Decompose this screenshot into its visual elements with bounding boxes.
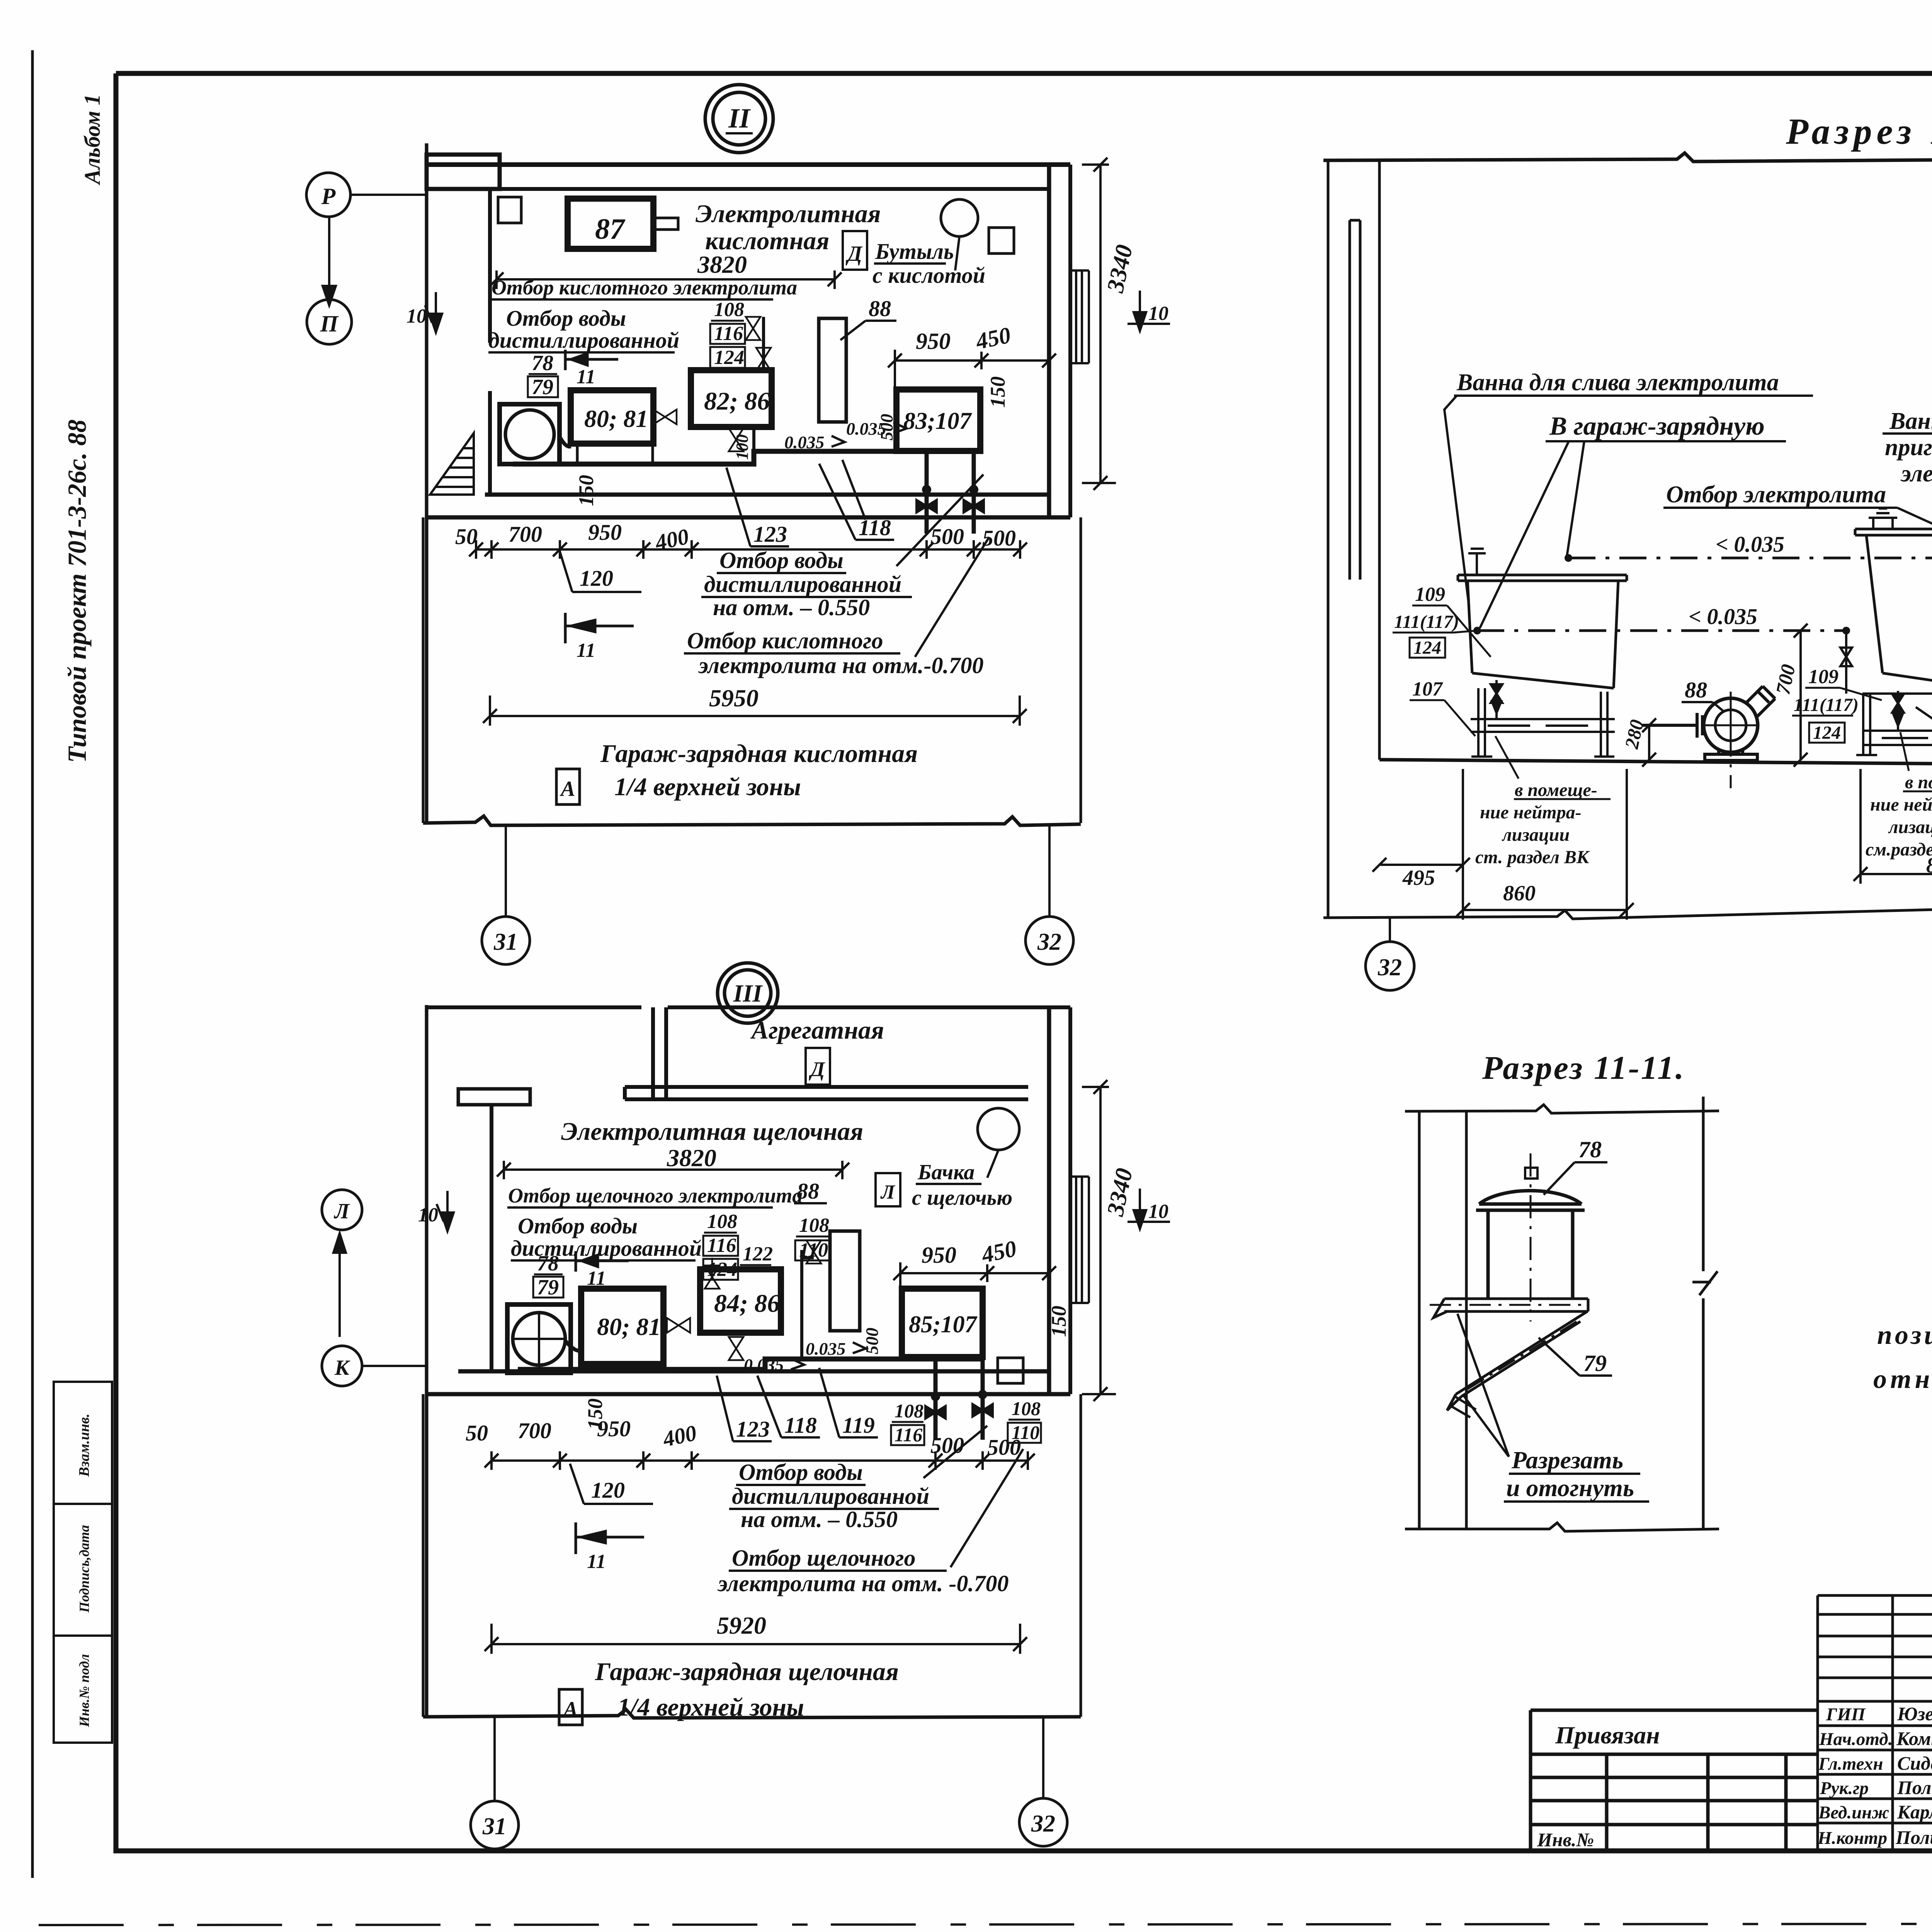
arrow P to Pi <box>323 217 336 305</box>
pot centerline <box>1530 1153 1532 1321</box>
dim 3340 line B <box>1082 1080 1116 1401</box>
svg-text:Полищук: Полищук <box>1895 1827 1932 1848</box>
pump nozzle <box>1745 686 1775 716</box>
flag D agregatnaya <box>806 1048 830 1085</box>
svg-text:124: 124 <box>1413 638 1441 658</box>
svg-text:Сиденко: Сиденко <box>1897 1752 1932 1774</box>
svg-text:124: 124 <box>1813 723 1841 743</box>
lower dim ticks B <box>485 1454 1035 1468</box>
top wall inner face <box>500 187 1049 191</box>
svg-text:5920: 5920 <box>717 1612 766 1639</box>
section mark 11 lower <box>565 613 634 643</box>
svg-text:11: 11 <box>577 639 595 662</box>
pipe dashline lower <box>1477 629 1846 632</box>
dim 3340 line <box>1082 158 1116 490</box>
svg-text:116: 116 <box>707 1235 736 1257</box>
svg-text:31: 31 <box>482 1813 507 1840</box>
svg-text:122: 122 <box>743 1243 773 1265</box>
neutralization block middle <box>1866 772 1932 878</box>
dim 5950 line <box>483 696 1027 726</box>
svg-text:в помеще-: в помеще- <box>1905 772 1932 793</box>
dim line 860 left <box>1456 769 1634 920</box>
svg-text:111(117): 111(117) <box>1794 695 1859 715</box>
valve drop left B <box>925 1393 946 1418</box>
svg-text:относятся к кислотной электрол: относятся к кислотной электролитной. <box>1873 1364 1932 1394</box>
svg-text:ние нейтра-: ние нейтра- <box>1870 794 1932 815</box>
lower dim ticks <box>469 543 1027 556</box>
svg-text:11: 11 <box>587 1551 606 1573</box>
pipe riser at 82 86 <box>754 317 764 451</box>
svg-text:108: 108 <box>707 1211 737 1233</box>
svg-text:Агрегатная: Агрегатная <box>750 1016 884 1044</box>
svg-text:950: 950 <box>588 520 622 545</box>
svg-text:118: 118 <box>784 1413 817 1438</box>
svg-text:32: 32 <box>1037 929 1061 955</box>
section left wall <box>1328 159 1379 917</box>
leader shchelochnogo B <box>951 1449 1023 1567</box>
svg-text:Подпись,дата: Подпись,дата <box>77 1525 92 1613</box>
svg-text:ст. раздел ВК: ст. раздел ВК <box>1475 847 1590 867</box>
svg-text:позиции, заключенные в скобки,: позиции, заключенные в скобки, <box>1877 1320 1932 1350</box>
right wall window strip B <box>1070 1177 1089 1303</box>
svg-text:0.035: 0.035 <box>806 1339 846 1359</box>
box 82 86 <box>691 370 772 427</box>
svg-text:Нач.отд.: Нач.отд. <box>1819 1729 1893 1749</box>
svg-text:Бутыль: Бутыль <box>875 239 954 264</box>
svg-text:11: 11 <box>577 366 595 388</box>
wall between agregatnaya and room <box>625 1087 1028 1099</box>
svg-text:79: 79 <box>1583 1350 1607 1376</box>
svg-text:78: 78 <box>537 1252 559 1276</box>
svg-text:Компанеец: Компанеец <box>1896 1728 1932 1749</box>
svg-text:109: 109 <box>1415 583 1445 605</box>
dim 3820 line B <box>497 1161 849 1179</box>
svg-text:В гараж-зарядную: В гараж-зарядную <box>1549 411 1765 440</box>
axis circle K <box>322 1346 362 1386</box>
stairs ramp triangle <box>430 433 474 495</box>
svg-text:150: 150 <box>575 475 598 506</box>
pipe main run <box>513 451 974 464</box>
svg-text:Разрезать: Разрезать <box>1511 1446 1623 1474</box>
leaders razrezat <box>1458 1314 1509 1457</box>
right wall window strip <box>1070 270 1089 363</box>
svg-text:80; 81: 80; 81 <box>597 1313 661 1340</box>
svg-text:Полищук: Полищук <box>1897 1777 1932 1798</box>
razrez right line <box>1692 1097 1718 1529</box>
tank box with circle <box>500 404 560 464</box>
room bottom wall B <box>427 1371 1070 1394</box>
svg-text:электролита на отм. -0.700: электролита на отм. -0.700 <box>717 1571 1009 1596</box>
axis leader 32 B <box>1042 1718 1044 1798</box>
svg-text:150: 150 <box>1047 1306 1070 1337</box>
svg-text:< 0.035: < 0.035 <box>1689 604 1757 629</box>
section mark 11 lower B <box>576 1522 644 1554</box>
svg-text:123: 123 <box>753 522 787 547</box>
section mark 11 upper B <box>576 1251 629 1272</box>
svg-text:Л: Л <box>880 1181 895 1203</box>
svg-text:Н.контр: Н.контр <box>1817 1828 1887 1848</box>
svg-text:А: А <box>562 1697 578 1721</box>
right wall outer B <box>1068 1007 1072 1394</box>
svg-text:Гараж-зарядная кислотная: Гараж-зарядная кислотная <box>600 740 918 768</box>
middle vat drain <box>1892 691 1904 730</box>
svg-text:124: 124 <box>714 347 744 369</box>
axis circle 31 <box>482 917 530 964</box>
svg-text:116: 116 <box>895 1424 922 1446</box>
svg-text:495: 495 <box>1402 866 1435 890</box>
svg-text:Отбор воды: Отбор воды <box>739 1459 863 1485</box>
valve above 84 86 <box>705 1258 719 1289</box>
pipe tank connector <box>560 437 571 447</box>
svg-text:Отбор воды: Отбор воды <box>719 548 844 573</box>
svg-text:860: 860 <box>1503 881 1536 905</box>
dim 3820 line <box>490 270 842 289</box>
barrel circle B <box>978 1108 1019 1150</box>
left vat shelf <box>1471 719 1615 732</box>
svg-text:31: 31 <box>493 929 518 955</box>
svg-text:150: 150 <box>583 1398 607 1430</box>
section flag 10 left B <box>437 1191 454 1231</box>
svg-text:120: 120 <box>580 566 613 591</box>
svg-text:32: 32 <box>1031 1811 1055 1837</box>
svg-text:Д: Д <box>809 1058 826 1081</box>
cabinet 88 tall <box>819 318 846 422</box>
svg-text:79: 79 <box>537 1276 559 1299</box>
svg-text:с щелочью: с щелочью <box>912 1186 1012 1210</box>
razrez left lines <box>1419 1111 1466 1529</box>
svg-text:84; 86: 84; 86 <box>714 1289 780 1318</box>
leader otbor vody to valve <box>896 474 983 566</box>
svg-text:П: П <box>320 311 339 337</box>
svg-text:109: 109 <box>1808 666 1838 688</box>
left vat drain valve <box>1491 680 1502 719</box>
svg-text:87: 87 <box>595 213 626 245</box>
svg-text:78: 78 <box>532 351 553 375</box>
svg-text:Электролитная: Электролитная <box>696 200 881 228</box>
svg-text:0.035: 0.035 <box>784 432 825 452</box>
svg-text:в помеще-: в помеще- <box>1515 780 1597 800</box>
left vat rim post <box>1468 549 1486 575</box>
svg-text:32: 32 <box>1378 954 1402 981</box>
tank box with circle B <box>507 1304 571 1373</box>
flag L <box>876 1173 900 1206</box>
leader otbor vody B <box>923 1426 987 1478</box>
right wall inner B <box>1047 1007 1051 1394</box>
svg-text:500: 500 <box>862 1328 882 1354</box>
pipe riser B <box>802 1250 814 1359</box>
svg-text:111(117): 111(117) <box>1394 612 1459 632</box>
axis circle 32 <box>1026 917 1073 964</box>
svg-text:10: 10 <box>418 1204 438 1226</box>
svg-text:108: 108 <box>895 1400 923 1422</box>
axis leader 31 <box>505 824 507 917</box>
garage right boundary <box>1080 517 1082 823</box>
pump 88 <box>1704 698 1758 752</box>
svg-text:Альбом 1: Альбом 1 <box>80 94 105 185</box>
svg-text:Л: Л <box>334 1199 350 1223</box>
svg-text:ГИП: ГИП <box>1826 1704 1866 1725</box>
svg-text:< 0.035: < 0.035 <box>1716 532 1784 557</box>
dim 950 450 line B <box>893 1262 1056 1289</box>
svg-text:108: 108 <box>799 1214 829 1236</box>
svg-text:ние нейтра-: ние нейтра- <box>1480 802 1582 823</box>
leader 109 left to vat <box>1447 605 1491 657</box>
box 85 107 <box>902 1289 983 1357</box>
svg-text:83;107: 83;107 <box>903 408 973 434</box>
valve drop left <box>917 486 937 512</box>
cabinet 88 tall B <box>830 1231 860 1331</box>
razrez bottom line <box>1405 1523 1719 1531</box>
svg-text:5950: 5950 <box>709 684 759 712</box>
svg-text:лизации: лизации <box>1502 825 1570 845</box>
small box right B <box>998 1358 1023 1383</box>
pipe drops B <box>935 1359 983 1440</box>
svg-text:Юзефович: Юзефович <box>1897 1703 1932 1725</box>
top wall outer face <box>427 162 1070 167</box>
brace diagonal <box>1447 1311 1587 1410</box>
svg-text:123: 123 <box>736 1417 770 1442</box>
section floor line <box>1379 760 1932 767</box>
section flag 10 right B <box>1128 1189 1170 1229</box>
svg-text:500: 500 <box>987 1435 1021 1460</box>
valve between boxes B <box>667 1318 690 1333</box>
dim 950 450 line <box>888 350 1056 389</box>
svg-text:950: 950 <box>916 328 951 354</box>
svg-text:см.раздел ВК: см.раздел ВК <box>1866 839 1932 860</box>
middle vat stand rail <box>1863 731 1932 745</box>
svg-text:88: 88 <box>797 1179 819 1204</box>
neutralization block left <box>1475 780 1597 905</box>
right wall inner line <box>1047 165 1051 517</box>
box 84 86 <box>700 1269 781 1333</box>
svg-text:Р: Р <box>321 184 336 209</box>
left inner wall <box>488 189 492 495</box>
svg-text:Отбор щелочного: Отбор щелочного <box>732 1545 915 1571</box>
svg-text:Инв.№: Инв.№ <box>1537 1829 1594 1850</box>
svg-text:Разрез 10-10.: Разрез 10-10. <box>1786 111 1932 152</box>
svg-text:116: 116 <box>714 323 743 345</box>
svg-text:120: 120 <box>591 1478 625 1503</box>
T column left <box>458 1089 530 1105</box>
svg-text:II: II <box>728 103 751 134</box>
dim 700 <box>1794 624 1808 767</box>
svg-text:Привязан: Привязан <box>1555 1721 1660 1749</box>
lower dim chain line B <box>492 1451 1028 1470</box>
bottle circle <box>941 199 978 236</box>
staff table grid <box>1818 1595 1932 1851</box>
svg-text:950: 950 <box>922 1242 956 1268</box>
box 80 81 <box>571 390 653 444</box>
svg-text:дистиллированной: дистиллированной <box>704 571 901 597</box>
pipe drop valves under wall <box>927 451 974 534</box>
svg-text:10: 10 <box>406 305 427 327</box>
svg-text:Отбор воды: Отбор воды <box>506 306 626 331</box>
svg-text:Электролитная щелочная: Электролитная щелочная <box>561 1117 863 1146</box>
flag A <box>556 769 580 804</box>
box 80 81 B <box>581 1289 663 1364</box>
svg-text:118: 118 <box>859 515 891 540</box>
svg-text:108: 108 <box>1012 1398 1041 1419</box>
section flag 10 right <box>1128 291 1170 331</box>
svg-text:Типовой проект 701-3-26с. 88: Типовой проект 701-3-26с. 88 <box>62 420 92 763</box>
svg-text:107: 107 <box>1412 678 1443 700</box>
axis circle II <box>705 85 773 153</box>
dim line 860 middle <box>1854 769 1932 884</box>
svg-text:78: 78 <box>1578 1137 1602 1162</box>
small wall box right <box>989 228 1014 253</box>
brace dash line <box>1464 1321 1577 1391</box>
valve between boxes <box>653 410 677 424</box>
svg-text:лизации: лизации <box>1888 817 1932 837</box>
staff name texts <box>1895 1703 1932 1848</box>
brace lower piece <box>1449 1396 1476 1417</box>
svg-text:1/4 верхней зоны: 1/4 верхней зоны <box>617 1693 804 1721</box>
svg-text:с кислотой: с кислотой <box>872 263 985 288</box>
valve on riser B <box>806 1240 821 1264</box>
privyazan table grid <box>1531 1710 1818 1851</box>
lower dim chain line <box>476 540 1020 559</box>
svg-text:Д: Д <box>845 242 863 266</box>
valve on riser upper <box>746 317 760 340</box>
left vat rim <box>1458 575 1627 581</box>
svg-text:3820: 3820 <box>697 251 747 278</box>
pipe tank connector B <box>565 1341 581 1351</box>
svg-text:на отм. – 0.550: на отм. – 0.550 <box>741 1507 898 1532</box>
flag A B <box>559 1689 582 1725</box>
svg-text:Рук.гр: Рук.гр <box>1820 1778 1869 1798</box>
pipe main run B <box>518 1359 983 1369</box>
middle vat body <box>1866 535 1932 691</box>
svg-text:на отм. – 0.550: на отм. – 0.550 <box>713 595 870 620</box>
flag D <box>843 231 867 270</box>
svg-text:88: 88 <box>869 296 891 321</box>
pot nub <box>1525 1168 1537 1179</box>
svg-text:Отбор кислотного: Отбор кислотного <box>687 628 883 653</box>
middle vat riser from dashline <box>1840 631 1852 694</box>
svg-text:приготовления: приготовления <box>1885 434 1932 461</box>
pot dome <box>1476 1190 1585 1210</box>
room bottom wall outer <box>427 515 1070 520</box>
axis leader 32 <box>1048 824 1051 917</box>
garage B right boundary <box>1080 1394 1082 1717</box>
axis circle 32 B <box>1019 1798 1067 1846</box>
garage B bottom boundary <box>423 1709 1081 1718</box>
svg-text:и отогнуть: и отогнуть <box>1506 1474 1634 1502</box>
top-left wall pier <box>427 155 500 189</box>
building left edge B <box>425 1005 429 1717</box>
svg-text:Бачка: Бачка <box>917 1160 975 1184</box>
axis circle P <box>306 173 350 217</box>
svg-text:дистиллированной: дистиллированной <box>732 1483 929 1509</box>
svg-text:10: 10 <box>1148 303 1168 325</box>
leader to right valve <box>915 537 989 657</box>
svg-text:Отбор кислотного электролита: Отбор кислотного электролита <box>492 276 797 299</box>
section bottom boundary <box>1323 895 1932 919</box>
svg-text:100: 100 <box>733 434 752 460</box>
outer bottom page edge dashed <box>39 1923 1932 1925</box>
section flag 10 left <box>425 292 442 332</box>
svg-text:50: 50 <box>466 1420 488 1446</box>
svg-text:79: 79 <box>532 375 553 399</box>
room bottom wall inner <box>485 493 1049 497</box>
svg-text:500: 500 <box>877 414 896 440</box>
pipe dashline upper <box>1568 557 1932 560</box>
garage bottom boundary <box>423 816 1081 825</box>
garage left boundary <box>422 517 425 823</box>
shelf 79 <box>1434 1299 1588 1318</box>
pump flange left <box>1642 713 1704 738</box>
middle vat funnel <box>1869 509 1897 529</box>
axis leader 31 B <box>493 1718 496 1801</box>
svg-text:150: 150 <box>986 376 1009 408</box>
pump base <box>1705 750 1757 760</box>
svg-text:3820: 3820 <box>667 1144 716 1172</box>
svg-text:Ванна для слива электролита: Ванна для слива электролита <box>1456 369 1779 396</box>
svg-text:Гараж-зарядная щелочная: Гараж-зарядная щелочная <box>595 1658 899 1686</box>
svg-text:108: 108 <box>714 299 744 321</box>
bottle leader <box>955 236 959 270</box>
svg-text:Отбор щелочного электролита: Отбор щелочного электролита <box>508 1184 803 1207</box>
room left wall stem B <box>490 1105 493 1371</box>
svg-text:Карлюка: Карлюка <box>1897 1801 1932 1823</box>
svg-text:Разрез 11-11.: Разрез 11-11. <box>1482 1049 1685 1086</box>
svg-text:1/4 верхней зоны: 1/4 верхней зоны <box>614 773 801 801</box>
svg-text:Инв.№ подл: Инв.№ подл <box>77 1654 92 1728</box>
svg-text:Вед.инж: Вед.инж <box>1818 1803 1889 1823</box>
sidebar stamp table <box>54 1382 112 1743</box>
svg-text:700: 700 <box>518 1418 551 1443</box>
dim 5920 line <box>485 1624 1027 1654</box>
section top line <box>1323 151 1932 162</box>
valve drop right <box>964 486 984 512</box>
section axis circle 32 <box>1389 918 1391 942</box>
axis circle 31 B <box>471 1801 519 1849</box>
svg-text:К: К <box>334 1356 350 1380</box>
top boundary line B <box>427 1005 1070 1009</box>
svg-text:50: 50 <box>455 524 478 549</box>
valve drop right B <box>973 1391 993 1417</box>
staff role texts <box>1817 1704 1893 1848</box>
svg-text:85;107: 85;107 <box>909 1311 978 1338</box>
valve under 82 86 <box>729 428 743 451</box>
leader from P to wall <box>351 194 425 196</box>
axis circle III <box>718 963 778 1023</box>
svg-text:82; 86: 82; 86 <box>704 387 770 415</box>
right wall outer line <box>1068 165 1072 517</box>
svg-text:дистиллированной: дистиллированной <box>488 328 679 353</box>
svg-text:119: 119 <box>842 1413 875 1438</box>
page left scan edge <box>31 50 34 1878</box>
svg-text:электролита: электролита <box>1900 461 1932 487</box>
pump centerline <box>1730 692 1732 788</box>
svg-text:Отбор электролита: Отбор электролита <box>1666 481 1886 508</box>
axis circle Pi <box>307 299 352 344</box>
middle vat rim <box>1855 529 1932 535</box>
svg-text:III: III <box>733 980 763 1007</box>
svg-text:700: 700 <box>509 522 542 547</box>
left vat legs <box>1471 688 1614 757</box>
valve under 84 86 <box>729 1337 743 1360</box>
valve on riser lower <box>756 348 771 371</box>
svg-text:500: 500 <box>930 524 964 549</box>
razrez top line <box>1405 1105 1719 1113</box>
charger box 87 <box>568 199 653 249</box>
garage B left boundary <box>422 1394 425 1717</box>
pot body <box>1488 1210 1573 1299</box>
dim 280 <box>1642 718 1656 767</box>
svg-text:Гл.техн: Гл.техн <box>1818 1754 1883 1774</box>
svg-text:Отбор воды: Отбор воды <box>518 1213 638 1238</box>
